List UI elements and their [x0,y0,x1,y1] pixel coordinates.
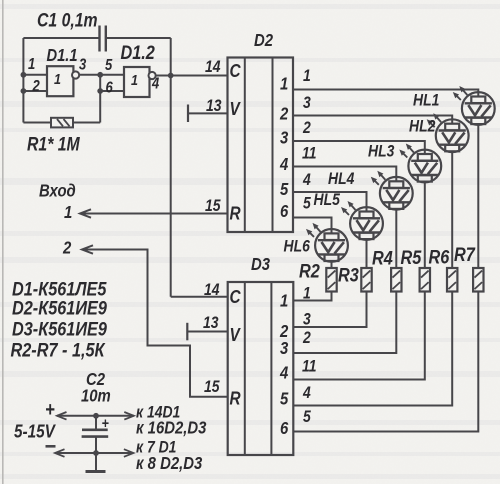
svg-text:1: 1 [280,74,288,94]
svg-text:2: 2 [302,329,311,347]
D3 internal output numbers 1-6 [279,291,289,438]
wire D1.1 pin2 [23,90,47,92]
resistor R4 [391,268,401,292]
resistor R2 [326,268,336,292]
svg-text:1: 1 [28,56,35,73]
svg-text:3: 3 [303,310,311,328]
node rail/D1.2 output [168,73,174,79]
wire top from C1 to right rail [106,37,171,39]
svg-text:HL1: HL1 [413,91,439,109]
pin 14 wire D2 [171,75,228,77]
resistor R7 [473,268,483,292]
svg-text:V: V [230,99,242,120]
svg-text:1: 1 [280,291,288,311]
svg-text:10m: 10m [81,386,111,406]
wire D2 output to HL5 [293,192,367,207]
ground [86,453,106,472]
svg-text:15: 15 [205,197,221,215]
pin 15 wire D2 (to input 1) [80,213,228,215]
svg-text:D1.1: D1.1 [47,46,78,66]
svg-text:1: 1 [303,284,311,302]
wire HL2 to R6 [451,152,453,268]
pin 13 common bar D2 [187,105,189,123]
svg-text:1: 1 [131,71,138,88]
svg-text:2: 2 [62,238,71,258]
svg-text:R5: R5 [401,247,423,269]
svg-text:2: 2 [302,119,311,137]
wire R3 to D3 output [293,292,366,328]
resistor R5 [420,268,430,292]
LED HL3 [399,144,441,183]
parts list text [11,278,108,361]
LED HL2 [427,113,469,152]
node junction B (pin 6 tie) [97,88,103,94]
svg-text:R6: R6 [429,246,451,268]
node junction A (pins 3-5) [97,72,103,78]
svg-text:HL6: HL6 [284,237,311,255]
input 2 arrow wire [82,250,228,397]
wire right rail down to D3 clock [170,38,172,297]
svg-text:R3: R3 [338,264,359,286]
svg-text:11: 11 [302,357,316,375]
power minus arrowhead right [124,449,133,457]
wire D2 output to HL6 [293,218,332,230]
svg-text:14: 14 [205,58,221,76]
wire D2 output to HL4 [293,167,396,177]
svg-text:1: 1 [54,70,61,87]
svg-text:R1* 1M: R1* 1M [27,133,80,155]
capacitor C2 [82,414,109,453]
svg-text:5-15V: 5-15V [14,421,56,442]
svg-text:R: R [230,388,242,409]
wire D2 output to HL1 [293,90,478,93]
wire R7 to D3 output [293,292,478,432]
wire junction vertical [99,75,101,123]
svg-text:D2-К561ИЕ9: D2-К561ИЕ9 [12,297,107,319]
svg-text:4: 4 [302,171,311,189]
svg-text:5: 5 [303,194,311,212]
wire HL6 to R2 [331,262,333,268]
svg-text:1: 1 [303,67,311,85]
wire HL1 to R7 [477,125,479,268]
IC D3 [228,282,294,455]
gate D1.2 [124,67,156,97]
svg-text:15: 15 [204,378,220,396]
node C2 plus [93,413,99,419]
svg-text:C: C [230,287,242,308]
wire HL4 to R4 [395,210,397,268]
wire R4 to D3 output [293,292,396,354]
pin 14 wire D3 [171,296,228,298]
pin 13 wire D2 [188,112,228,114]
power plus wire [57,415,134,417]
svg-text:3: 3 [303,94,311,112]
LED HL5 [341,201,383,240]
resistor R1 [51,118,73,128]
svg-text:R4: R4 [372,247,393,269]
pin 13 common bar D3 [186,323,188,341]
wire R6 to D3 output [293,292,452,406]
svg-text:HL5: HL5 [314,191,341,209]
IC D2 [228,58,294,233]
svg-text:3: 3 [79,56,86,73]
svg-text:5: 5 [303,408,311,426]
resistor R6 [447,268,457,292]
resistor R3 [361,268,371,292]
svg-text:6: 6 [280,202,289,222]
svg-text:13: 13 [206,97,222,115]
node C2 minus [93,450,99,456]
wire HL5 to R3 [366,240,368,268]
D3 external pin numbers [302,284,316,426]
input 2 arrowhead [82,245,93,253]
wire R1 loop left [23,122,51,124]
svg-text:3: 3 [280,339,288,359]
wire junction to D1.2 pin5 [100,74,124,76]
LED HL4 [371,171,413,210]
capacitor C1 [100,26,106,52]
wire junction to D1.2 pin6 [100,90,124,92]
svg-text:+: + [45,398,55,421]
wire D2 output to HL2 [293,116,452,120]
svg-text:R: R [230,203,242,224]
wire top from left rail to C1 [23,37,99,39]
svg-text:+: + [102,414,109,431]
svg-text:11: 11 [302,144,316,162]
wire D1.1 output to junction [79,74,100,76]
D2 external pin numbers [302,67,316,213]
svg-text:D2: D2 [254,31,273,51]
wire R1 loop right [73,122,100,124]
svg-text:HL2: HL2 [409,117,436,135]
svg-text:C: C [230,61,242,82]
svg-text:D3-К561ИЕ9: D3-К561ИЕ9 [12,318,107,340]
svg-text:D3: D3 [251,255,270,275]
svg-text:C1 0,1m: C1 0,1m [37,9,98,31]
svg-text:13: 13 [203,314,219,332]
LED HL1 [453,86,495,125]
power plus arrowhead right [124,412,134,420]
wire left rail [22,38,24,123]
svg-text:4: 4 [151,75,159,92]
power minus arrowhead left [55,449,65,457]
svg-text:к 16D2,D3: к 16D2,D3 [136,418,206,438]
wire D2 output to HL3 [293,141,425,150]
svg-text:R2-R7 - 1,5К: R2-R7 - 1,5К [11,339,107,361]
power minus wire [55,452,133,454]
gate D1.1 [47,66,79,96]
svg-text:1: 1 [64,203,72,223]
label minus [46,445,56,448]
wire R2 to D3 output [293,292,331,301]
wire R5 to D3 output [293,292,425,380]
svg-text:4: 4 [302,384,311,402]
svg-text:5: 5 [280,180,289,200]
pin 13 wire D3 [187,331,227,333]
svg-text:D1.2: D1.2 [121,42,155,64]
svg-text:V: V [230,325,242,346]
svg-text:к 8 D2,D3: к 8 D2,D3 [136,454,202,474]
svg-text:4: 4 [279,155,288,175]
power plus arrowhead left [57,412,67,420]
svg-text:HL3: HL3 [368,142,395,160]
node rail/pin2 [21,88,27,94]
svg-text:HL4: HL4 [328,170,355,188]
wire D1.1 pin1 [23,74,47,76]
svg-text:6: 6 [106,79,114,96]
input 1 arrowhead [80,209,91,217]
svg-text:2: 2 [32,78,40,95]
svg-text:R7: R7 [454,244,476,266]
svg-text:4: 4 [279,363,288,383]
svg-text:3: 3 [280,128,288,148]
wire HL3 to R5 [424,182,426,268]
svg-text:14: 14 [204,281,220,299]
svg-text:R2: R2 [299,260,320,282]
LED HL6 [306,223,348,262]
node rail/pin1 [21,72,27,78]
svg-text:5: 5 [105,57,113,74]
svg-text:2: 2 [279,104,288,124]
svg-text:6: 6 [280,419,289,439]
D2 internal output numbers 1-6 [279,74,289,221]
wire D1.2 output to right rail [156,75,171,77]
svg-text:5: 5 [280,389,289,409]
svg-text:Вход: Вход [39,181,76,201]
